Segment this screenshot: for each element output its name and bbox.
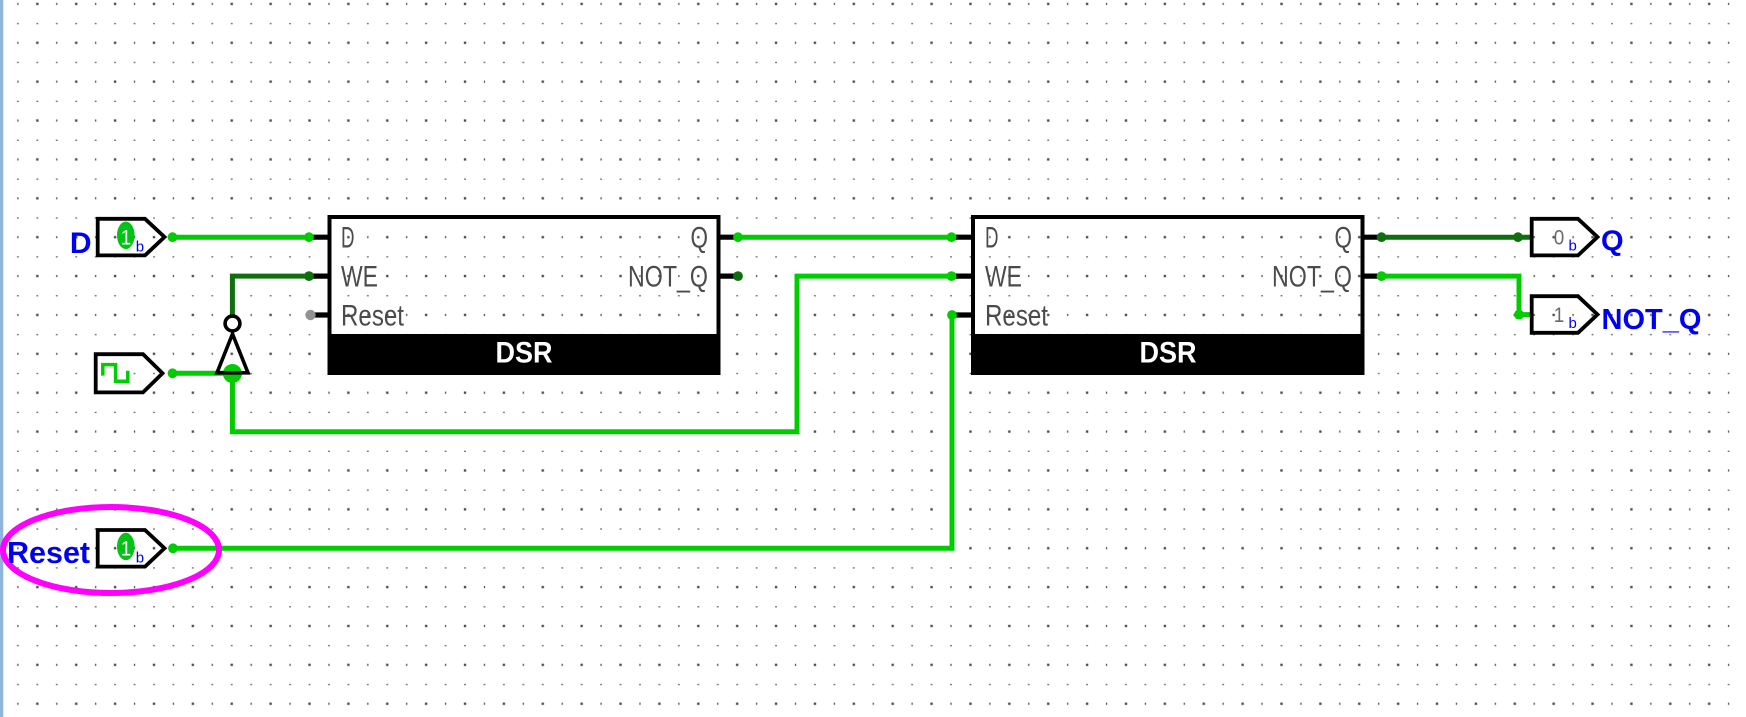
svg-text:Q: Q (1601, 226, 1624, 258)
svg-text:D: D (341, 222, 355, 255)
svg-text:WE: WE (341, 261, 378, 294)
svg-text:NOT_Q: NOT_Q (628, 261, 708, 294)
svg-text:D: D (985, 222, 999, 255)
svg-text:b: b (1569, 315, 1577, 332)
svg-text:Reset: Reset (341, 300, 404, 333)
svg-text:D: D (70, 227, 92, 260)
svg-text:b: b (136, 239, 144, 256)
svg-text:1: 1 (1554, 303, 1565, 327)
svg-text:b: b (136, 550, 144, 567)
svg-text:DSR: DSR (1140, 337, 1197, 370)
svg-text:Reset: Reset (7, 536, 90, 570)
svg-text:1: 1 (121, 537, 132, 561)
svg-text:Q: Q (1335, 222, 1353, 255)
svg-text:Reset: Reset (985, 300, 1048, 333)
svg-text:NOT_Q: NOT_Q (1602, 304, 1702, 336)
svg-text:b: b (1569, 238, 1577, 255)
svg-text:DSR: DSR (496, 337, 553, 370)
svg-text:Q: Q (691, 222, 709, 255)
svg-text:1: 1 (121, 226, 132, 250)
svg-text:NOT_Q: NOT_Q (1272, 261, 1352, 294)
svg-text:WE: WE (985, 261, 1022, 294)
svg-text:0: 0 (1554, 225, 1565, 249)
